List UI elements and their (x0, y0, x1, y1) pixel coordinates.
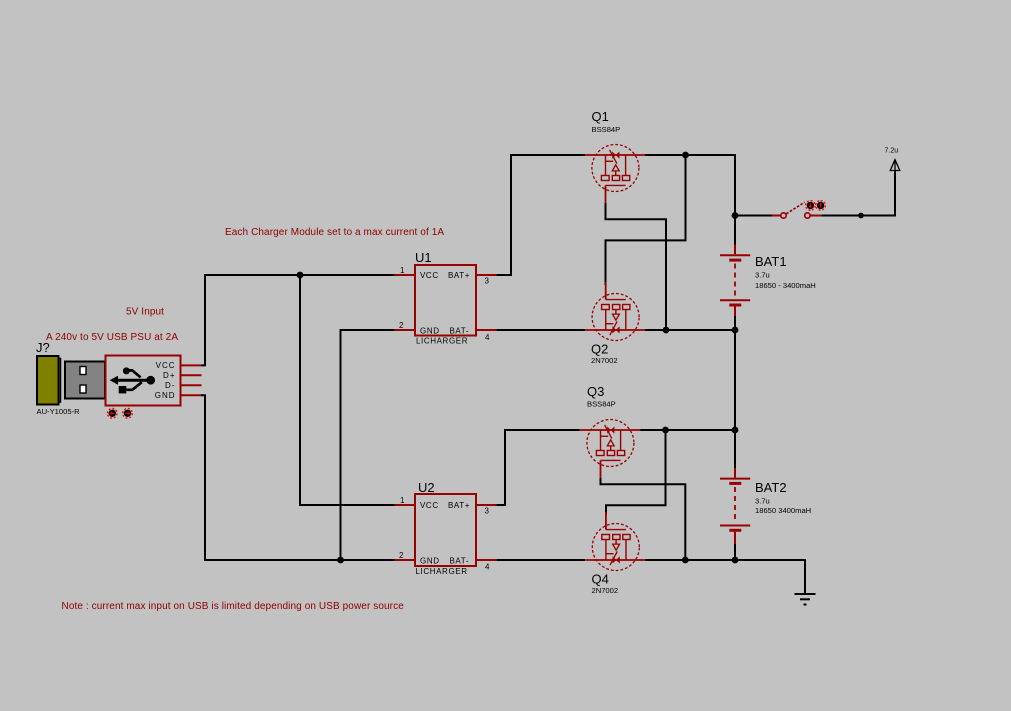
BAT1 plate long 1 (720, 254, 750, 256)
wire U1 pin3 to Q1 source (496, 155, 585, 275)
wire into switch (735, 215, 772, 217)
svg-text:18650 3400maH: 18650 3400maH (755, 506, 811, 515)
svg-text:7.2u: 7.2u (885, 148, 899, 155)
BAT2 plate long 2 (720, 525, 750, 527)
svg-text:3.7u: 3.7u (755, 497, 770, 506)
U2 pin4 stub (476, 559, 496, 561)
IC U2 LICHARGER (395, 480, 497, 576)
wire Q1 drain node to Q2 gate (606, 155, 686, 285)
BAT1 plate long 2 (720, 299, 750, 301)
svg-text:BAT1: BAT1 (755, 254, 787, 269)
svg-text:3.7u: 3.7u (755, 271, 770, 280)
junction at 665.5,430 (662, 427, 669, 434)
svg-text:GND: GND (155, 391, 176, 400)
svg-text:Q3: Q3 (587, 384, 604, 399)
wire GND net: USB GND down to U2 pin2 (201, 395, 395, 560)
BAT2 plate short 2 (729, 529, 741, 532)
svg-text:U1: U1 (415, 250, 432, 265)
wire Q1 gate to Q2 rail (606, 203, 667, 330)
transistor Q1 BSS84P (585, 145, 645, 204)
junction at 735,215.5 (732, 212, 739, 219)
BAT1 plate short 1 (729, 259, 741, 262)
U1 pin1 stub (395, 274, 415, 276)
wire switch to supply arrow (821, 171, 895, 216)
pin D- stub (181, 384, 202, 386)
usb plug contact 1 (80, 367, 86, 375)
junction at 300,275 (297, 272, 304, 279)
wire Q3 drain node to Q4 gate (606, 430, 666, 515)
switch pin left (772, 215, 781, 217)
svg-text:D+: D+ (163, 371, 175, 380)
svg-text:3: 3 (485, 276, 490, 285)
usb plug metal shell (65, 362, 105, 399)
U2 pin1 stub (395, 504, 415, 506)
junction at 735,560 (732, 557, 739, 564)
switch lever (786, 202, 804, 214)
svg-text:D-: D- (165, 381, 175, 390)
svg-text:LICHARGER: LICHARGER (416, 337, 468, 346)
junction at 666,330 (663, 327, 670, 334)
switch pin right (810, 215, 821, 217)
usb connector shadow body (40, 359, 61, 403)
BAT1 plate short 2 (729, 304, 741, 307)
wire Q2 drain to BAT1 bottom (645, 329, 735, 331)
U2 box (415, 494, 476, 566)
svg-text:GND: GND (420, 557, 440, 566)
svg-text:VCC: VCC (420, 271, 439, 280)
net target down-arrow (806, 201, 816, 211)
svg-text:Note : current max input on US: Note : current max input on USB is limit… (62, 601, 405, 612)
svg-text:BAT+: BAT+ (448, 271, 470, 280)
wire U2 pin4 to Q4 source (496, 559, 585, 561)
svg-text:18650 - 3400maH: 18650 - 3400maH (755, 281, 816, 290)
svg-text:LICHARGER: LICHARGER (416, 567, 468, 576)
net target left-arrow (108, 409, 118, 419)
svg-text:3: 3 (485, 506, 490, 515)
junction at 685.5,155 (682, 152, 689, 159)
svg-text:BSS84P: BSS84P (587, 399, 616, 408)
svg-text:Q2: Q2 (591, 342, 608, 357)
svg-text:GND: GND (420, 327, 440, 336)
svg-text:2N7002: 2N7002 (591, 356, 618, 365)
BAT2 mid dashed (734, 487, 736, 520)
battery BAT1 (720, 244, 816, 316)
BAT1 top pin (734, 244, 736, 254)
usb trident icon (110, 376, 119, 385)
pin GND stub (181, 394, 202, 396)
connector J1 USB (36, 340, 202, 418)
pin D+ stub (181, 374, 202, 376)
BAT1 mid dashed (734, 264, 736, 297)
svg-text:2N7002: 2N7002 (592, 586, 619, 595)
svg-text:BAT-: BAT- (450, 326, 470, 335)
svg-text:4: 4 (485, 333, 490, 342)
BAT1 bottom pin (734, 307, 736, 317)
wire U1 pin4 to Q2 source (496, 329, 585, 331)
usb connector olive body (37, 356, 59, 405)
svg-text:1: 1 (400, 266, 405, 275)
U1 pin3 stub (476, 274, 496, 276)
svg-text:BAT-: BAT- (450, 556, 470, 565)
BAT2 bottom pin (734, 532, 736, 544)
U1 pin2 stub (395, 329, 415, 331)
usb symbol box outline (106, 356, 181, 406)
junction at 735,430 (732, 427, 739, 434)
transistor Q2 2N7002 (585, 282, 645, 341)
wire VCC net: USB VCC up to U1 pin1 (201, 275, 395, 365)
svg-text:4: 4 (485, 563, 490, 572)
svg-text:BSS84P: BSS84P (592, 125, 621, 134)
svg-text:5V Input: 5V Input (126, 307, 164, 318)
svg-text:BAT+: BAT+ (448, 501, 470, 510)
supply arrow 7.2u (885, 148, 900, 172)
wire Q4 drain to ground (645, 560, 805, 594)
U2 pin3 stub (476, 504, 496, 506)
junction at 861,215.5 (858, 213, 864, 219)
svg-text:VCC: VCC (420, 501, 439, 510)
switch contact left (781, 213, 786, 218)
U2 pin2 stub (395, 559, 415, 561)
svg-text:2: 2 (399, 551, 404, 560)
wire Q3 gate to Q4 rail (601, 478, 686, 560)
U1 box (415, 265, 476, 336)
wire BAT2 bottom to rail (734, 544, 736, 560)
svg-text:AU-Y1005-R: AU-Y1005-R (37, 407, 81, 416)
junction at 735,330 (732, 327, 739, 334)
transistor Q4 2N7002 (585, 512, 645, 571)
svg-text:Q1: Q1 (592, 109, 609, 124)
svg-text:2: 2 (399, 321, 404, 330)
svg-text:1: 1 (400, 496, 405, 505)
svg-text:BAT2: BAT2 (755, 480, 787, 495)
wire Q3 drain to BAT2 top (640, 429, 735, 431)
wire Q1 drain to switch and BAT1 top (645, 155, 735, 245)
BAT2 plate short 1 (729, 482, 741, 485)
transistor Q3 BSS84P (580, 420, 640, 479)
svg-text:U2: U2 (418, 480, 435, 495)
switch S1 (735, 201, 825, 219)
wire series link BAT1- to BAT2+ (734, 316, 736, 468)
net target up-arrow (816, 201, 826, 211)
switch contact right (805, 213, 810, 218)
pin VCC stub (181, 364, 202, 366)
U1 pin4 stub (476, 329, 496, 331)
battery BAT2 (720, 468, 811, 560)
svg-text:Q4: Q4 (592, 572, 609, 587)
net target right-arrow (123, 409, 133, 419)
wire U2 pin3 to Q3 source (496, 430, 579, 505)
junction at 685.3,560 (682, 557, 689, 564)
wire VCC net riser to U2 pin1 (300, 275, 395, 505)
BAT2 top pin (734, 468, 736, 478)
ground symbol (795, 594, 816, 605)
usb plug contact 2 (80, 385, 86, 393)
BAT2 plate long 1 (720, 478, 750, 480)
svg-text:A 240v to 5V USB PSU at 2A: A 240v to 5V USB PSU at 2A (46, 332, 178, 343)
svg-text:J?: J? (36, 340, 50, 355)
svg-text:VCC: VCC (156, 361, 176, 370)
svg-text:Each Charger Module set to a m: Each Charger Module set to a max current… (225, 227, 444, 238)
IC U1 LICHARGER (395, 250, 497, 346)
wire U1 pin2 to GND net (341, 330, 395, 560)
junction at 340.5,560 (337, 557, 344, 564)
